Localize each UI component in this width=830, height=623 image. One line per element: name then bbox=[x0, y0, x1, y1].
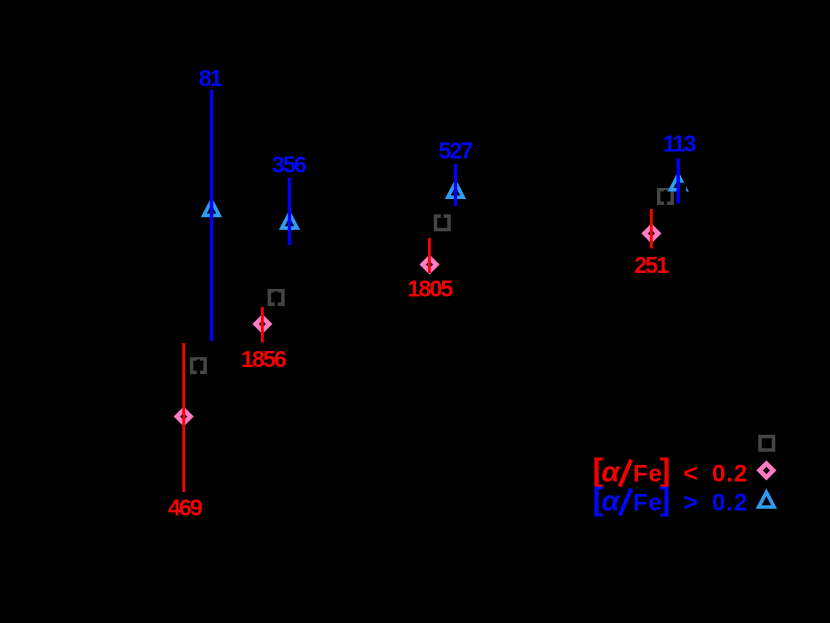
gray square marker S2 bbox=[269, 291, 283, 305]
svg-text:α: α bbox=[602, 486, 621, 518]
svg-text:81: 81 bbox=[199, 65, 223, 91]
svg-text:1856: 1856 bbox=[241, 346, 286, 372]
red error bar, cluster 1805 bbox=[428, 238, 431, 273]
svg-text:469: 469 bbox=[168, 495, 202, 521]
red error bar, cluster 251 bbox=[650, 209, 653, 248]
svg-text:1805: 1805 bbox=[408, 276, 454, 302]
blue error bar, cluster 81 bbox=[210, 90, 213, 341]
gray square marker S1 bbox=[192, 359, 206, 373]
gray square marker S4 bbox=[659, 190, 673, 204]
svg-text:356: 356 bbox=[272, 152, 306, 178]
svg-text:Fe: Fe bbox=[633, 461, 663, 488]
blue triangle marker, cluster 81 bbox=[204, 201, 219, 216]
pink diamond marker, cluster 1856 bbox=[256, 317, 270, 331]
red error bar, cluster 469 bbox=[182, 343, 185, 492]
blue triangle marker, cluster 113 bbox=[671, 175, 686, 190]
blue error bar, cluster 527 bbox=[454, 164, 457, 206]
svg-text:>: > bbox=[683, 489, 698, 517]
svg-text:527: 527 bbox=[439, 138, 473, 164]
legend blue triangle bbox=[759, 492, 774, 507]
svg-text:α: α bbox=[602, 457, 621, 489]
svg-text:251: 251 bbox=[634, 252, 669, 278]
black cut line through S2 bbox=[275, 291, 278, 307]
black cut line through S1 bbox=[197, 359, 200, 375]
pink diamond marker, cluster 469 bbox=[177, 410, 191, 424]
blue error bar, cluster 113 bbox=[677, 158, 680, 203]
svg-text:<: < bbox=[683, 460, 698, 488]
black cut line through S4 bbox=[664, 190, 667, 206]
svg-text:]: ] bbox=[660, 481, 671, 517]
pink diamond marker, cluster 251 bbox=[645, 227, 659, 241]
blue triangle marker, cluster 527 bbox=[448, 182, 463, 197]
blue triangle marker, cluster 356 bbox=[282, 213, 297, 228]
svg-text:113: 113 bbox=[663, 131, 696, 157]
black notch on top edge of S3 bbox=[441, 213, 444, 218]
legend gray square bbox=[760, 437, 774, 451]
pink diamond marker, cluster 1805 bbox=[423, 258, 437, 272]
red error bar, cluster 1856 bbox=[261, 307, 264, 342]
gray square marker S3 bbox=[436, 216, 450, 230]
legend pink diamond bbox=[760, 464, 774, 478]
svg-text:0.2: 0.2 bbox=[712, 461, 748, 488]
svg-text:0.2: 0.2 bbox=[712, 490, 748, 517]
svg-text:Fe: Fe bbox=[633, 490, 663, 517]
blue error bar, cluster 356 bbox=[288, 178, 291, 245]
black overlay erasing right side of triangle 113 bbox=[679, 183, 686, 193]
